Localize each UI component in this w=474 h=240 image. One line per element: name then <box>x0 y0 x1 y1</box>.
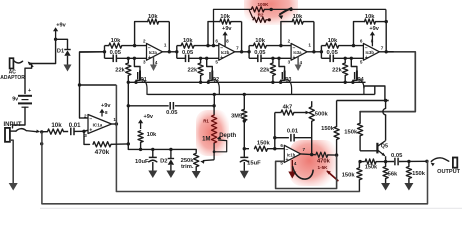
svg-text:10k: 10k <box>148 14 158 20</box>
svg-text:10k: 10k <box>51 122 62 129</box>
wire outer feedback <box>212 9 251 47</box>
svg-text:+: + <box>292 55 295 61</box>
capacitor 0.05 stage 4 <box>321 50 363 62</box>
resistor 10k stage 2 input <box>177 38 219 48</box>
svg-text:+: + <box>365 55 368 61</box>
svg-text:22k: 22k <box>115 68 125 74</box>
svg-text:+9v: +9v <box>143 114 153 120</box>
annotation arrow at R2 <box>278 8 292 20</box>
output row left node <box>358 160 361 163</box>
battery negative lead <box>13 107 26 128</box>
svg-text:+: + <box>28 88 31 94</box>
wire LFO positive feedback loop <box>276 155 337 188</box>
wire bias row <box>128 148 196 151</box>
wire 0.05 feedback row <box>128 104 216 107</box>
wire switch contact to +9v node <box>32 39 56 63</box>
resistor 10k feedback stage 1 <box>148 14 159 24</box>
resistor 10k feedback stage 4 <box>365 14 376 24</box>
svg-text:2: 2 <box>143 39 146 44</box>
+9v supply arrow <box>53 22 67 41</box>
resistor 10k input <box>42 122 68 134</box>
svg-text:3: 3 <box>143 60 146 65</box>
AC power switch <box>13 60 33 66</box>
svg-text:1: 1 <box>308 43 311 48</box>
svg-text:ADAPTOR: ADAPTOR <box>0 75 25 81</box>
svg-text:22k: 22k <box>188 68 198 74</box>
svg-text:6: 6 <box>280 143 283 148</box>
svg-text:0.05: 0.05 <box>166 110 178 116</box>
gate bus <box>148 93 375 96</box>
svg-text:R1: R1 <box>203 119 209 124</box>
wire outer feedback right <box>271 9 386 21</box>
svg-text:4k7: 4k7 <box>283 105 293 111</box>
wire +9v node to D1 <box>56 39 68 49</box>
wire IC1a pin2 feedback loop <box>80 52 105 118</box>
svg-text:0.05: 0.05 <box>182 50 194 56</box>
wire bypass riser <box>41 132 43 204</box>
node Q5 emitter <box>384 160 387 163</box>
svg-text:150k: 150k <box>412 171 426 177</box>
wire source rail <box>128 81 365 83</box>
svg-text:15uF: 15uF <box>247 161 261 167</box>
resistor 10k stage 4 input <box>321 38 363 48</box>
resistor 150k to Q5 base <box>344 112 362 151</box>
AC adaptor jack <box>0 58 25 81</box>
svg-text:+9v: +9v <box>222 26 232 32</box>
resistor 22k stage 1 <box>115 58 131 82</box>
svg-text:trim.: trim. <box>181 164 194 170</box>
svg-text:150k: 150k <box>342 172 356 178</box>
resistor 22k stage 2 <box>188 58 204 82</box>
node X <box>335 153 338 156</box>
svg-text:100K: 100K <box>258 2 270 7</box>
wire feedback loop stage 4 <box>352 20 388 54</box>
svg-text:3M9: 3M9 <box>231 114 242 120</box>
svg-text:2: 2 <box>288 39 291 44</box>
resistor R2 <box>249 10 271 22</box>
svg-text:0.05: 0.05 <box>254 50 266 56</box>
resistor 10k feedback stage 2 <box>220 14 231 24</box>
svg-text:1M: 1M <box>202 136 210 142</box>
svg-text:6: 6 <box>215 39 218 44</box>
svg-text:+9v: +9v <box>56 22 66 28</box>
node stage 4 input <box>320 50 323 53</box>
svg-text:10k: 10k <box>183 38 193 44</box>
wire top mixer <box>337 99 389 102</box>
svg-text:Depth: Depth <box>219 133 236 139</box>
svg-text:500k: 500k <box>315 111 329 117</box>
wire stage 1 output <box>163 51 177 53</box>
wire 4k7 branch vertical <box>273 113 276 149</box>
wire feedback loop stage 3 <box>279 22 315 54</box>
svg-text:470k: 470k <box>95 149 110 156</box>
wire feedback loop stage 1 <box>133 22 171 54</box>
+9v at Ic2b pin8 <box>222 26 232 47</box>
ground below 10uF <box>148 171 157 179</box>
INPUT label <box>4 122 22 128</box>
svg-text:+: + <box>285 157 288 163</box>
capacitor 0.01 LFO <box>275 129 312 142</box>
resistor 3M9 <box>231 94 247 148</box>
op-amp IC1a <box>84 113 116 137</box>
input switch <box>10 129 40 133</box>
resistor 56k <box>383 162 398 183</box>
svg-text:7: 7 <box>236 46 239 51</box>
diode D2 <box>160 149 174 170</box>
node stage 3 rail <box>271 81 282 84</box>
svg-text:IC1a: IC1a <box>93 123 103 128</box>
diode D1 <box>57 49 71 65</box>
resistor 22k stage 4 <box>332 58 348 82</box>
ground below 15uF <box>240 171 249 179</box>
svg-text:–: – <box>365 45 368 51</box>
svg-text:+9v: +9v <box>369 26 379 32</box>
capacitor 0.05 stage 1 <box>105 50 147 62</box>
svg-text:4: 4 <box>300 60 303 65</box>
trimpot 250k <box>181 149 199 171</box>
resistor 150k shunt <box>406 161 425 183</box>
svg-text:10k: 10k <box>220 14 230 20</box>
battery 9v <box>12 96 32 107</box>
ground at Ic3a pin4 <box>295 57 302 71</box>
wire stage 2 input box <box>176 46 178 59</box>
Depth label <box>219 133 236 139</box>
wire Q5 base <box>360 150 377 152</box>
svg-text:–: – <box>286 147 289 153</box>
svg-text:10uF: 10uF <box>135 159 149 165</box>
wire stage 3 output <box>307 51 321 53</box>
transistor Q5 <box>377 141 388 162</box>
svg-text:7: 7 <box>303 147 306 152</box>
svg-text:9v: 9v <box>12 96 18 102</box>
wire stage 4 output <box>379 51 393 53</box>
capacitor 0.01 input <box>69 123 84 135</box>
svg-text:0.01: 0.01 <box>69 123 81 129</box>
svg-text:22k: 22k <box>260 68 270 74</box>
node 15uF <box>243 147 246 150</box>
wire Q4 gate link <box>364 86 385 101</box>
annotation 1-5K <box>318 165 329 170</box>
svg-text:–: – <box>220 45 223 51</box>
svg-text:8: 8 <box>226 39 229 44</box>
wire stage 3 input box <box>248 46 250 59</box>
transistor Q4 <box>351 58 364 94</box>
depth pot 1M R1 <box>202 106 217 160</box>
wire stage 4 input box <box>320 46 322 59</box>
svg-text:–: – <box>148 45 151 51</box>
svg-text:8: 8 <box>105 110 108 115</box>
wire IC1b output <box>301 153 312 156</box>
node stage 3 input <box>247 50 250 53</box>
svg-text:+: + <box>220 55 223 61</box>
resistor 10k feedback stage 3 <box>292 14 303 24</box>
svg-text:0.05: 0.05 <box>327 50 339 56</box>
resistor 4k7 <box>275 105 310 116</box>
svg-text:10k: 10k <box>293 14 303 20</box>
resistor 10k stage 3 input <box>249 38 291 48</box>
resistor 10k bias <box>138 131 157 150</box>
svg-text:4: 4 <box>155 60 158 65</box>
svg-text:3: 3 <box>288 60 291 65</box>
resistor 22k stage 3 <box>260 58 276 82</box>
capacitor 0.05 stage 2 <box>177 50 219 62</box>
op-amp IC1b <box>280 143 305 166</box>
svg-text:250k: 250k <box>181 158 195 164</box>
svg-text:0.01: 0.01 <box>287 129 299 135</box>
input jack sleeve ground <box>9 140 18 190</box>
svg-text:0.05: 0.05 <box>110 50 122 56</box>
wire dry signal riser <box>115 85 117 192</box>
svg-text:10k: 10k <box>255 38 265 44</box>
svg-text:7: 7 <box>381 46 384 51</box>
+9v at IC1a pin8 <box>99 103 111 116</box>
svg-text:10k: 10k <box>365 14 375 20</box>
wire IC1a output <box>112 122 119 125</box>
input jack <box>5 128 10 142</box>
svg-text:–: – <box>293 45 296 51</box>
wire IC1a out to stage 1 <box>80 51 105 53</box>
node input switch <box>40 130 43 145</box>
resistor 100K mod <box>251 2 273 12</box>
resistor 150k dry <box>342 162 362 192</box>
svg-text:10k: 10k <box>147 132 157 138</box>
wire bypass bus <box>42 161 428 204</box>
svg-text:+9v: +9v <box>101 103 111 109</box>
resistor 150k LFO input <box>244 140 284 151</box>
svg-text:Q5: Q5 <box>381 144 388 150</box>
capacitor 0.05 gate <box>166 102 178 116</box>
svg-text:0.05: 0.05 <box>391 153 403 159</box>
wire stage4 output route <box>360 52 415 112</box>
scan artifact line <box>40 207 462 209</box>
transistor Q1 <box>134 58 147 94</box>
svg-text:6: 6 <box>360 39 363 44</box>
svg-text:OUTPUT: OUTPUT <box>437 169 461 175</box>
svg-text:+: + <box>89 128 92 134</box>
svg-text:470k: 470k <box>317 158 331 164</box>
svg-text:1-5K: 1-5K <box>318 165 329 170</box>
output jack <box>437 158 461 175</box>
svg-text:D1: D1 <box>57 49 64 55</box>
svg-text:150k: 150k <box>365 165 378 171</box>
svg-text:150k: 150k <box>344 129 358 135</box>
trimpot 250k wiper <box>200 160 214 164</box>
svg-text:5: 5 <box>215 60 218 65</box>
node stage 2 rail <box>199 81 210 84</box>
svg-text:10k: 10k <box>111 38 121 44</box>
ground below 56k <box>381 183 390 191</box>
wire Q5 collector with hop <box>383 101 386 141</box>
+9v at Ic3b pin8 <box>369 26 379 47</box>
op-amp Ic3a <box>288 39 312 65</box>
wire feedback loop stage 2 <box>206 22 243 54</box>
LFO waveform swoosh <box>293 167 314 180</box>
transistor Q3 <box>279 58 292 94</box>
wire dry bus <box>116 191 359 193</box>
wire stage 1 input box <box>104 46 106 59</box>
resistor 470k LFO <box>312 152 337 164</box>
capacitor 15uF <box>240 149 261 171</box>
svg-text:D2: D2 <box>160 158 167 164</box>
svg-text:150k: 150k <box>321 126 335 132</box>
wire Vb vertical <box>127 82 130 149</box>
resistor 150k node X riser <box>321 101 339 156</box>
transistor Q2 <box>207 58 220 94</box>
svg-text:10k: 10k <box>328 38 338 44</box>
svg-text:1: 1 <box>164 43 167 48</box>
svg-text:–: – <box>89 117 92 123</box>
capacitor 10uF <box>135 149 157 170</box>
op-amp Ic2a <box>143 39 167 65</box>
depth pot wiper <box>213 136 227 153</box>
+9v at bias resistor <box>138 114 154 129</box>
capacitor 0.05 output <box>386 153 409 165</box>
wire gate bus to depth <box>213 94 215 105</box>
svg-text:150k: 150k <box>257 140 271 146</box>
node stage 1 rail <box>127 81 138 84</box>
node output cap <box>407 160 428 163</box>
wire IC1a pin3 stub <box>84 130 88 131</box>
ground at Ic2a pin4 <box>150 57 157 71</box>
svg-text:56k: 56k <box>388 171 398 177</box>
ground below 150k shunt <box>404 183 413 191</box>
ground below 250k trim <box>192 171 201 179</box>
node IC1a pin3 <box>82 130 85 133</box>
ground below D1 <box>64 65 72 72</box>
output switch <box>431 158 449 166</box>
svg-text:+: + <box>148 55 151 61</box>
speed pot 500k <box>309 101 328 156</box>
wire IC1a feedback tee <box>78 83 117 86</box>
op-amp Ic2b <box>215 39 239 65</box>
svg-text:R2: R2 <box>258 13 264 18</box>
svg-text:22k: 22k <box>332 68 342 74</box>
resistor 150k output mix <box>360 159 386 171</box>
node stage 2 input <box>175 50 178 53</box>
annotation arrow at 470k <box>326 171 338 181</box>
op-amp Ic3b <box>360 39 384 65</box>
ground below D2 <box>166 171 175 179</box>
svg-text:5: 5 <box>360 60 363 65</box>
node stage 4 rail <box>344 81 355 84</box>
node stage 1 input <box>103 50 106 53</box>
wire stage 2 output <box>235 51 249 53</box>
battery positive lead <box>25 64 32 95</box>
ground at IC1b pin4 <box>288 160 296 179</box>
capacitor 0.05 stage 3 <box>249 50 291 62</box>
resistor 10k stage 1 input <box>105 38 147 48</box>
svg-text:4: 4 <box>294 161 297 166</box>
resistor 470k IC1a bias <box>84 131 128 156</box>
